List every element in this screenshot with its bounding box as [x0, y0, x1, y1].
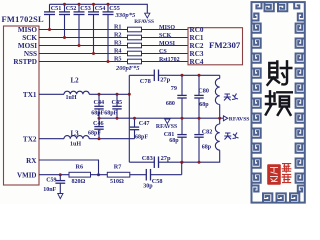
banner right meander unit 4 — [296, 84, 305, 93]
svg-text:CS: CS — [159, 49, 167, 55]
capacitor C47 — [134, 118, 136, 127]
banner corner BL hook — [252, 186, 259, 192]
svg-text:MISO: MISO — [18, 26, 38, 34]
wire RX — [39, 160, 99, 175]
svg-text:R1: R1 — [114, 24, 122, 31]
wire RSTPD bus row — [39, 61, 188, 63]
wire VMID — [39, 174, 69, 176]
RFAVSS mid arrow — [165, 119, 170, 124]
svg-text:C45: C45 — [112, 99, 123, 106]
capacitor C51 — [49, 4, 51, 12]
svg-text:RC0: RC0 — [190, 26, 204, 34]
banner right meander unit 10 — [296, 174, 305, 183]
banner bottom meander unit 1 — [277, 193, 286, 202]
resistor R1 — [128, 27, 142, 32]
svg-text:C80: C80 — [198, 87, 209, 94]
banner top meander unit 1 — [278, 2, 287, 11]
wire TX1 node vertical — [128, 75, 130, 162]
capacitor C45 — [116, 94, 118, 106]
wire coil1 to rail — [219, 105, 221, 119]
wire TX1 — [39, 93, 64, 95]
banner corner BR hook — [298, 186, 305, 192]
resistor R7 — [107, 172, 130, 177]
banner corner TR hook — [298, 14, 305, 21]
svg-text:Rst1702: Rst1702 — [159, 57, 180, 63]
svg-text:510Ω: 510Ω — [110, 179, 124, 185]
svg-text:200pF*5: 200pF*5 — [115, 65, 140, 72]
junction C51-row — [48, 28, 51, 31]
resistor R6 — [69, 172, 91, 177]
label antenna lower (tian xian) — [224, 133, 238, 140]
inductor L3 — [64, 136, 89, 139]
banner char PIN (frequency) — [266, 91, 292, 115]
junction rail-C82 — [198, 117, 201, 120]
svg-text:C47: C47 — [139, 120, 150, 127]
capacitor C79 — [181, 75, 183, 95]
svg-text:68pF: 68pF — [104, 111, 117, 117]
wire SCK bus row — [39, 37, 188, 39]
svg-text:R3: R3 — [114, 40, 122, 47]
junction C55-row — [107, 60, 110, 63]
banner left meander unit 10 — [252, 174, 261, 183]
svg-text:C51: C51 — [51, 5, 62, 12]
banner left meander unit 4 — [252, 84, 261, 93]
capacitor C54 — [93, 4, 95, 12]
wire MOSI bus row — [39, 45, 188, 47]
junction top-C79 — [181, 74, 184, 77]
svg-text:RC2: RC2 — [190, 42, 204, 50]
banner outer frame — [252, 2, 305, 203]
svg-text:SCK: SCK — [159, 33, 172, 39]
banner right meander unit 6 — [296, 114, 305, 123]
resistor R3 — [128, 43, 142, 48]
svg-text:27p: 27p — [160, 76, 170, 83]
capacitor C83 — [129, 161, 154, 163]
junction RX-R6R7 — [97, 173, 100, 176]
svg-text:NSS: NSS — [24, 50, 37, 58]
banner bottom meander unit 2 — [290, 193, 299, 202]
svg-text:FM1702SL: FM1702SL — [2, 15, 45, 24]
svg-text:C78: C78 — [140, 78, 151, 85]
svg-text:C54: C54 — [95, 5, 106, 12]
seal right chars (ci hai) — [282, 164, 292, 183]
junction C52-row — [63, 36, 66, 39]
junction rail-C53 — [78, 3, 81, 6]
svg-text:1uH: 1uH — [66, 95, 77, 101]
banner left meander unit 6 — [252, 114, 261, 123]
banner right meander unit 1 — [296, 39, 305, 48]
junction TX1-C45 — [116, 93, 119, 96]
svg-text:RFAVSS: RFAVSS — [134, 19, 154, 25]
svg-text:330p*5: 330p*5 — [115, 12, 136, 19]
junction rail-C81 — [181, 117, 184, 120]
svg-text:C59: C59 — [46, 178, 56, 184]
svg-text:C44: C44 — [94, 99, 105, 106]
svg-text:RSTPD: RSTPD — [13, 58, 37, 66]
junction rail-C55 — [107, 3, 110, 6]
svg-text:1uH: 1uH — [70, 141, 81, 147]
seal white marks — [270, 168, 278, 182]
svg-text:TX2: TX2 — [23, 135, 37, 143]
svg-text:VMID: VMID — [17, 171, 36, 179]
wire C58 riser — [181, 162, 183, 175]
junction VMID-C59 — [59, 173, 62, 176]
svg-text:820Ω: 820Ω — [72, 179, 86, 185]
svg-text:C58: C58 — [152, 178, 163, 185]
svg-text:68p: 68p — [169, 138, 179, 144]
svg-text:MISO: MISO — [159, 25, 175, 31]
capacitor C78 — [129, 74, 154, 76]
svg-text:C82: C82 — [202, 128, 213, 135]
svg-text:C83: C83 — [142, 155, 153, 162]
seal red square (zhi jia) — [267, 164, 281, 184]
svg-text:68pF: 68pF — [135, 135, 148, 141]
junction rail-C44 — [98, 117, 101, 120]
antenna coil upper — [215, 78, 219, 104]
svg-text:R6: R6 — [76, 164, 84, 171]
junction rail-C47 — [133, 117, 136, 120]
svg-text:30p: 30p — [143, 184, 153, 190]
capacitor C52 — [64, 4, 66, 12]
svg-text:FM2307: FM2307 — [209, 40, 241, 50]
capacitor C82 — [198, 118, 200, 134]
resistor R5 — [128, 59, 142, 64]
svg-text:MOSI: MOSI — [159, 41, 176, 47]
junction rail-C54 — [92, 3, 95, 6]
wire TX2 to C47 — [89, 138, 134, 140]
wire NSS bus row — [39, 53, 188, 55]
junction bottom-C82 — [198, 161, 201, 164]
IC U2 FM2307 body — [188, 28, 243, 65]
antenna coil lower — [215, 124, 219, 150]
svg-text:R4: R4 — [114, 48, 122, 55]
svg-text:R7: R7 — [114, 164, 122, 171]
capacitor C46 — [98, 118, 100, 126]
svg-text:C53: C53 — [80, 5, 91, 12]
junction TX1-C44 — [98, 93, 101, 96]
RFAVSS top rail wire — [50, 4, 148, 13]
capacitor C59 — [59, 175, 61, 181]
capacitor C58 — [130, 174, 147, 176]
junction C53-row — [78, 44, 81, 47]
svg-text:68p: 68p — [202, 144, 212, 150]
svg-text:TX1: TX1 — [23, 91, 37, 99]
svg-text:RFAVSS: RFAVSS — [156, 124, 177, 130]
svg-text:68pF: 68pF — [88, 130, 101, 136]
wire R6-R7 — [91, 174, 108, 176]
svg-text:MOSI: MOSI — [18, 42, 37, 50]
junction rail-coil — [218, 117, 221, 120]
wire TX1 to node — [89, 93, 129, 95]
junction bottom-C58riser — [180, 161, 183, 164]
banner left meander unit 7 — [252, 129, 261, 138]
RFAVSS right arrow — [223, 116, 227, 121]
banner left meander unit 2 — [252, 54, 261, 63]
banner corner TL hook — [252, 14, 259, 21]
svg-text:10nF: 10nF — [43, 187, 56, 193]
svg-text:C52: C52 — [66, 5, 77, 12]
svg-text:680: 680 — [166, 101, 175, 107]
wire bottom rail right — [182, 161, 220, 163]
banner right meander unit 0 — [296, 24, 305, 33]
junction TX2-C46 — [98, 137, 101, 140]
banner corner TL top hook — [256, 2, 261, 8]
resistor R4 — [128, 51, 142, 56]
banner right meander unit 5 — [296, 99, 305, 108]
wire TX2 — [39, 138, 64, 140]
banner top meander unit 0 — [265, 2, 274, 11]
svg-text:RFAVSS: RFAVSS — [229, 117, 250, 123]
inductor L2 — [64, 91, 89, 94]
capacitor C55 — [107, 4, 109, 12]
svg-text:R2: R2 — [114, 32, 122, 39]
svg-text:79: 79 — [171, 85, 177, 92]
svg-text:C81: C81 — [164, 131, 175, 138]
banner left meander unit 1 — [252, 39, 261, 48]
svg-text:68p: 68p — [199, 102, 209, 108]
capacitor C81 — [181, 118, 183, 134]
capacitor C80 — [198, 75, 200, 95]
banner left meander unit 0 — [252, 24, 261, 33]
banner char SHE (shot) — [268, 61, 292, 85]
IC U1 FM1702SL body — [4, 26, 40, 185]
banner bottom meander unit 0 — [263, 193, 272, 202]
wire MISO bus row — [39, 29, 188, 31]
svg-text:L3: L3 — [71, 129, 80, 137]
svg-text:RC4: RC4 — [190, 58, 204, 66]
banner left meander unit 8 — [252, 144, 261, 153]
resistor R2 — [128, 35, 142, 40]
wire antenna top corner — [219, 75, 221, 78]
junction rail-C45 — [116, 117, 119, 120]
svg-text:68pF: 68pF — [91, 111, 104, 117]
svg-text:RC1: RC1 — [190, 34, 204, 42]
junction rail-C52 — [63, 3, 66, 6]
junction bottom-C81 — [181, 161, 184, 164]
banner right meander unit 8 — [296, 144, 305, 153]
banner right meander unit 2 — [296, 54, 305, 63]
wire coil2 to bottom rail — [219, 118, 221, 162]
svg-text:RC3: RC3 — [190, 50, 204, 58]
RFAVSS top arrow — [145, 13, 150, 18]
junction C54-row — [92, 52, 95, 55]
banner corner TR top hook — [294, 2, 299, 8]
svg-text:L2: L2 — [71, 76, 80, 84]
ground arrow — [58, 194, 63, 199]
banner left meander unit 3 — [252, 69, 261, 78]
capacitor C53 — [78, 4, 80, 12]
junction TX1-riser — [128, 93, 131, 96]
banner left meander unit 9 — [252, 159, 261, 168]
svg-text:27p: 27p — [161, 155, 171, 162]
capacitor C44 — [98, 94, 100, 106]
junction top-C80 — [198, 74, 201, 77]
svg-text:C46: C46 — [93, 120, 104, 127]
banner right meander unit 9 — [296, 159, 305, 168]
svg-text:RX: RX — [26, 157, 37, 165]
svg-text:SCK: SCK — [22, 34, 37, 42]
wire RFAVSS mid rail — [99, 117, 223, 119]
banner right meander unit 7 — [296, 129, 305, 138]
label antenna upper (tian xian) — [224, 94, 238, 101]
banner left meander unit 5 — [252, 99, 261, 108]
svg-text:R5: R5 — [114, 56, 122, 63]
banner right meander unit 3 — [296, 69, 305, 78]
